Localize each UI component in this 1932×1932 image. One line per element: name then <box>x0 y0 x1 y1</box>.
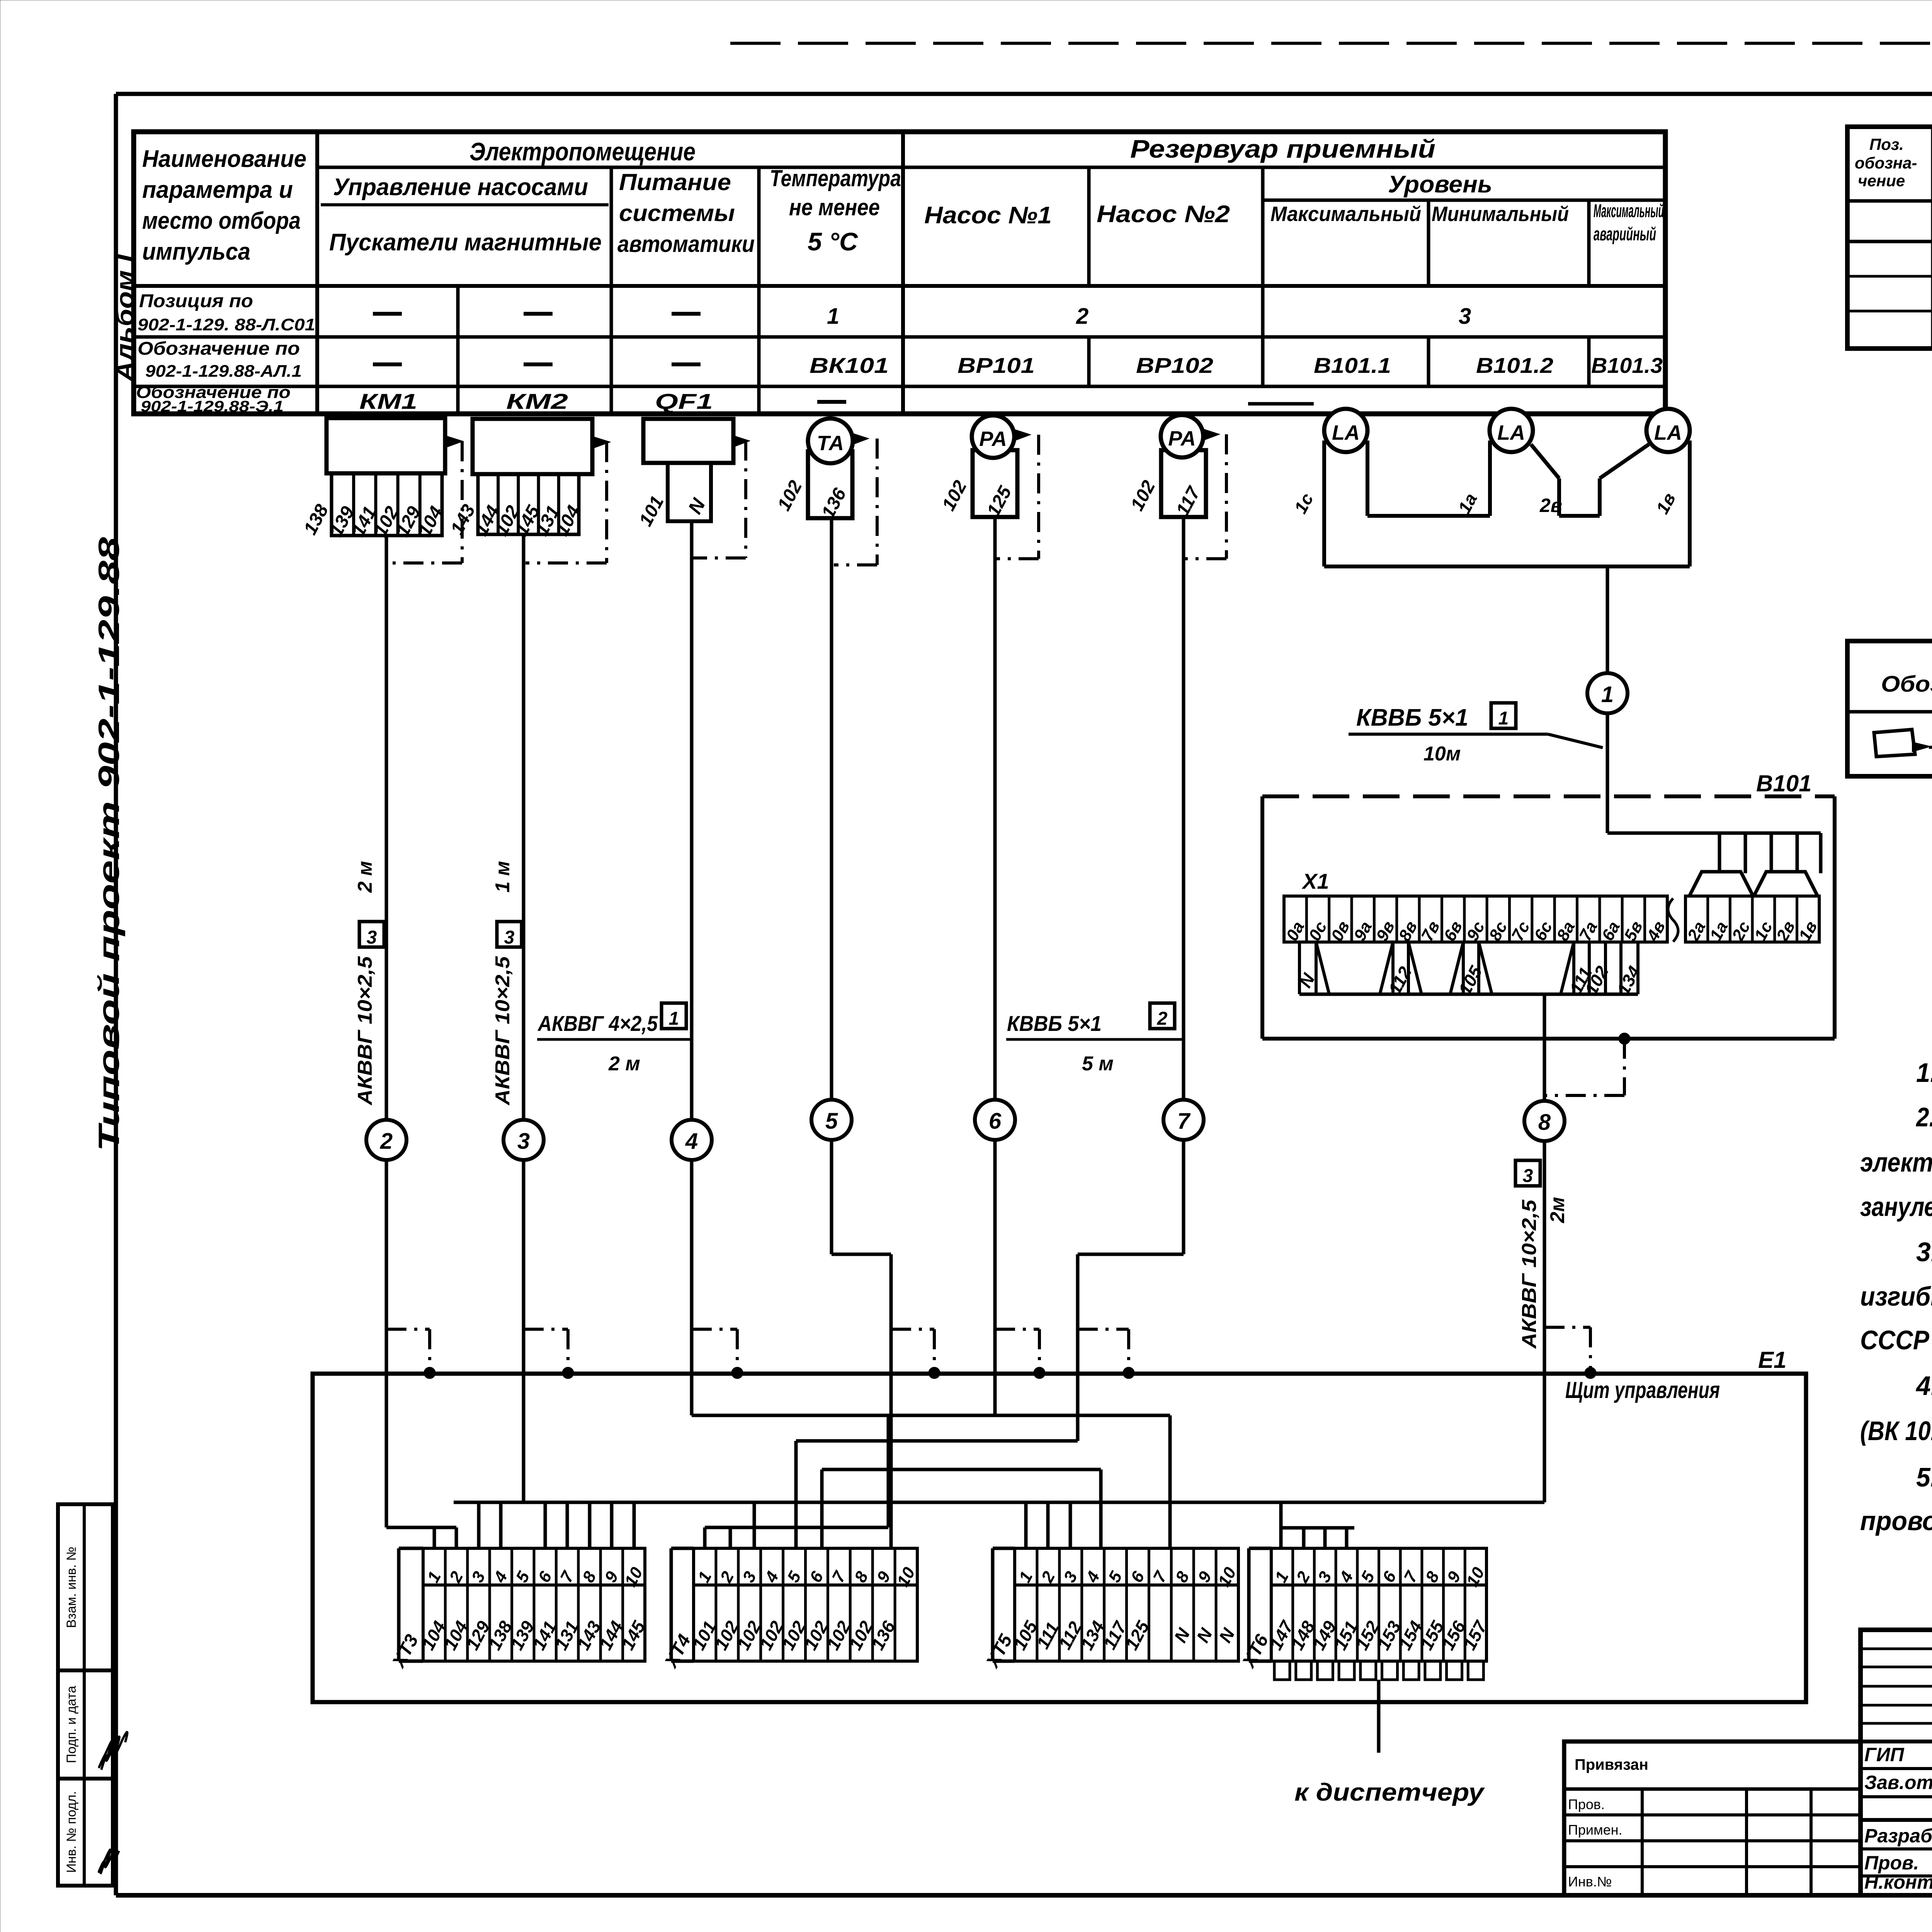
sheet top edge (dashed) <box>730 42 1932 45</box>
svg-text:В101: В101 <box>1756 770 1811 796</box>
svg-text:чение: чение <box>1858 172 1905 190</box>
svg-text:автоматики: автоматики <box>617 231 755 257</box>
svg-text:Насос №1: Насос №1 <box>924 202 1052 229</box>
svg-text:Максимальный: Максимальный <box>1594 201 1664 221</box>
reservoir device box B101 <box>1262 794 1835 798</box>
svg-text:КВВБ 5×1: КВВБ 5×1 <box>1356 704 1468 731</box>
svg-text:Температура: Температура <box>770 165 901 191</box>
terminal strip X1 <box>1284 896 1667 942</box>
level sensor LA3 <box>1646 409 1690 452</box>
wire from QF1 to E1 (cable 4) <box>690 521 694 1373</box>
cable list table <box>1847 127 1932 349</box>
svg-text:РА: РА <box>1168 427 1196 450</box>
svg-text:Максимальный: Максимальный <box>1270 202 1421 226</box>
magnetic starter KM1 <box>327 418 445 473</box>
svg-text:2м: 2м <box>1546 1197 1569 1223</box>
svg-text:Наименование: Наименование <box>142 146 306 172</box>
svg-text:В101.2: В101.2 <box>1476 353 1553 378</box>
signature scribble <box>99 1732 128 1770</box>
temperature sensor TA <box>808 451 852 518</box>
ground core hook at B101 bottom <box>1619 1033 1630 1044</box>
svg-text:В101.1: В101.1 <box>1314 353 1391 378</box>
svg-text:8: 8 <box>1538 1110 1551 1135</box>
svg-text:В101.3: В101.3 <box>1591 353 1663 378</box>
svg-text:Разраб.: Разраб. <box>1864 1825 1932 1847</box>
hood over cells 2a-1a <box>1689 872 1753 896</box>
svg-text:ВК101: ВК101 <box>810 353 889 378</box>
svg-text:1. Позиционные обозначения д: 1. Позиционные обозначения даны по 902-1… <box>1916 1058 1932 1088</box>
svg-text:3: 3 <box>1523 1166 1533 1186</box>
PA1 ground core dash-dot <box>1037 435 1040 559</box>
wire to dispatcher <box>1377 1680 1381 1753</box>
svg-text:2: 2 <box>1157 1009 1168 1029</box>
auxiliary bus inside E1 <box>822 1468 1101 1471</box>
svg-text:Пускатели магнитные: Пускатели магнитные <box>329 229 602 256</box>
side table (Взам.инв / Подп.и дата / Инв.подл) <box>58 1504 113 1886</box>
parameter table vertical rules <box>315 132 319 414</box>
svg-text:проводить по сх. 902-1-12: проводить по сх. 902-1-129.88 - А л.3 <box>1860 1506 1932 1536</box>
wire from KM1 to E1 (cable 2) <box>385 536 388 1373</box>
wire 8 branch inside E1 to XT6 <box>1543 1373 1546 1502</box>
svg-text:3: 3 <box>1459 304 1471 329</box>
svg-text:параметра и: параметра и <box>142 177 293 203</box>
svg-text:Инв. № подл.: Инв. № подл. <box>64 1791 79 1873</box>
node circle 6 <box>975 1100 1015 1140</box>
svg-text:2 м: 2 м <box>608 1053 640 1075</box>
wire from TA (cable 5) <box>830 518 833 1254</box>
X1 break squiggle <box>1668 898 1678 942</box>
svg-text:(ВК 101.1 ... ВК 101.3) и: (ВК 101.1 ... ВК 101.3) и тщательно заиз… <box>1860 1416 1932 1446</box>
wire from X1 group to circle 8 (cable 8) <box>1543 994 1546 1373</box>
svg-text:Подп. и дата: Подп. и дата <box>64 1686 79 1763</box>
wire 2 branch inside E1 to XT3 <box>385 1373 388 1527</box>
svg-text:2: 2 <box>380 1129 393 1154</box>
svg-text:902-1-129.88-АЛ.1: 902-1-129.88-АЛ.1 <box>145 362 302 381</box>
svg-text:Зав.отд.: Зав.отд. <box>1864 1772 1932 1793</box>
circuit breaker QF1 <box>643 419 733 463</box>
wire 4 branch inside E1 <box>690 1373 694 1415</box>
svg-text:1: 1 <box>1498 708 1509 729</box>
svg-text:системы: системы <box>619 200 735 226</box>
svg-text:3: 3 <box>367 927 377 948</box>
svg-text:Электропомещение: Электропомещение <box>469 137 696 166</box>
cable 8 ground hook <box>1544 1326 1590 1329</box>
svg-text:Взам. инв. №: Взам. инв. № <box>64 1547 79 1628</box>
svg-text:импульса: импульса <box>142 238 250 265</box>
svg-text:Питание: Питание <box>619 169 731 195</box>
svg-text:Обозначение по: Обозначение по <box>138 338 300 359</box>
svg-text:LA: LA <box>1332 421 1360 444</box>
svg-text:2. Все металлические, нормаль: 2. Все металлические, нормально нетокове… <box>1915 1102 1932 1132</box>
wire from PA1 (cable 6) <box>993 517 997 1373</box>
svg-text:7: 7 <box>1177 1109 1191 1134</box>
wire from PA2 (cable 7) <box>1182 517 1185 1254</box>
ground hooks at E1 top <box>386 1328 430 1331</box>
svg-text:10м: 10м <box>1423 743 1461 765</box>
legend table <box>1847 641 1932 776</box>
terminal strip X1 right group <box>1685 896 1819 942</box>
stamp: main title block <box>1861 1630 1932 1895</box>
wire 7 branch inside E1 <box>1076 1373 1080 1441</box>
svg-text:Минимальный: Минимальный <box>1432 202 1569 226</box>
inventory number scribble <box>99 1847 119 1874</box>
drawing frame <box>116 92 1932 96</box>
cable 8 designation АКВВГ 10х2,5 [3] 2м <box>1515 1160 1540 1186</box>
node circle 8 <box>1524 1101 1565 1141</box>
svg-text:3: 3 <box>504 927 515 948</box>
svg-text:Уровень: Уровень <box>1388 171 1492 198</box>
svg-text:LA: LA <box>1497 421 1525 444</box>
svg-text:Пров.: Пров. <box>1568 1796 1605 1812</box>
svg-text:5 °С: 5 °С <box>808 227 858 256</box>
wire from LA group to B101 (cable 1) <box>1606 566 1609 796</box>
node circle 4 <box>672 1120 712 1160</box>
row1 dashes and values <box>373 312 402 316</box>
svg-text:СССР от 17.12.79 г №89-Д.: СССР от 17.12.79 г №89-Д. <box>1860 1325 1932 1355</box>
svg-text:5. Монтаж магнитных пускат: 5. Монтаж магнитных пускателей КМ1, КМ2 <box>1916 1462 1932 1492</box>
pressure gauge PA (pump2) <box>1161 450 1206 517</box>
row2 dashes and values <box>373 362 402 366</box>
pressure gauge PA (pump1) <box>973 450 1017 517</box>
svg-text:6: 6 <box>989 1109 1002 1134</box>
svg-text:ГИП: ГИП <box>1864 1744 1905 1765</box>
svg-text:электрооборудования занулить: электрооборудования занулить согласно ПУ… <box>1860 1147 1932 1177</box>
PA2 ground core dash-dot <box>1225 434 1228 559</box>
svg-text:зануления использовать нулев: зануления использовать нулевую жилу пров… <box>1860 1192 1932 1222</box>
svg-text:место отбора: место отбора <box>142 207 301 234</box>
svg-text:ТА: ТА <box>817 432 844 455</box>
svg-text:КМ1: КМ1 <box>359 389 417 413</box>
svg-text:изгибы , повороты и отходы: изгибы , повороты и отходы согласно пись… <box>1860 1281 1932 1311</box>
hood over cells 2c-1c <box>1754 872 1818 896</box>
level sensor LA2 <box>1490 409 1533 452</box>
svg-text:1: 1 <box>827 304 839 329</box>
svg-text:ВР101: ВР101 <box>957 353 1035 378</box>
svg-text:902-1-129.88-Э.1: 902-1-129.88-Э.1 <box>141 398 284 415</box>
svg-text:4. Кабель №1 развести на: 4. Кабель №1 развести на три датчика ЭРС… <box>1915 1371 1932 1401</box>
svg-text:Поз.: Поз. <box>1869 135 1904 153</box>
svg-text:к диспетчеру: к диспетчеру <box>1294 1778 1485 1806</box>
node circle 1 <box>1587 673 1628 713</box>
svg-text:АКВВГ 10×2,5: АКВВГ 10×2,5 <box>354 956 376 1106</box>
KM2 ground core dash-dot <box>605 442 608 563</box>
svg-text:QF1: QF1 <box>655 389 713 413</box>
node circle 3 <box>503 1120 544 1160</box>
LA group connecting lines <box>1367 514 1490 518</box>
svg-text:Насос №2: Насос №2 <box>1097 201 1230 228</box>
svg-text:Управление насосами: Управление насосами <box>333 174 588 201</box>
svg-text:5 м: 5 м <box>1082 1053 1114 1075</box>
node circle 2 <box>366 1120 406 1160</box>
grouping bridges <box>1316 942 1329 994</box>
svg-text:LA: LA <box>1654 421 1682 444</box>
svg-text:АКВВГ 10×2,5: АКВВГ 10×2,5 <box>1518 1199 1541 1349</box>
svg-text:2 м: 2 м <box>354 861 376 893</box>
svg-text:2: 2 <box>1076 304 1088 329</box>
svg-text:ВР102: ВР102 <box>1136 353 1213 378</box>
grouping bottom bus <box>1299 993 1638 996</box>
svg-text:Е1: Е1 <box>1758 1347 1786 1373</box>
parameter table horizontal rules <box>317 166 1665 169</box>
TA ground core dash-dot <box>876 439 879 565</box>
parameter table frame <box>134 132 1665 414</box>
svg-text:3. Длины кабелей даны с: 3. Длины кабелей даны с учетом 6 % надба… <box>1916 1237 1932 1267</box>
svg-text:КВВБ 5×1: КВВБ 5×1 <box>1007 1011 1102 1036</box>
svg-text:обозна-: обозна- <box>1855 154 1917 172</box>
X1 core grouping boxes N 112 105 111 102 134 <box>1298 942 1301 994</box>
svg-text:902-1-129. 88-Л.С01: 902-1-129. 88-Л.С01 <box>138 315 315 334</box>
level sensor LA1 <box>1324 409 1367 452</box>
svg-text:2в: 2в <box>1539 495 1562 516</box>
control panel box E1 <box>313 1374 1806 1702</box>
svg-text:1: 1 <box>1601 682 1614 707</box>
wire from KM2 to E1 (cable 3) <box>522 534 526 1373</box>
svg-text:не менее: не менее <box>789 194 880 220</box>
svg-text:Инв.№: Инв.№ <box>1568 1874 1612 1889</box>
wire 5 branch inside E1 <box>889 1373 893 1548</box>
svg-text:АКВВГ 10×2,5: АКВВГ 10×2,5 <box>492 956 514 1106</box>
svg-text:аварийный: аварийный <box>1594 224 1656 245</box>
KM1 ground core dash-dot <box>461 441 464 563</box>
svg-text:Привязан: Привязан <box>1575 1756 1648 1773</box>
svg-text:КМ2: КМ2 <box>506 389 568 413</box>
wire inside B101 from circle 1 <box>1606 796 1609 833</box>
svg-text:Позиция по: Позиция по <box>139 291 253 311</box>
legend symbol: grounded core of cable <box>1874 730 1915 757</box>
svg-text:Щит управления: Щит управления <box>1565 1377 1720 1403</box>
drops to sensor terminals <box>1718 833 1721 873</box>
svg-text:Типовой проект 902-1-129.88: Типовой проект 902-1-129.88 <box>93 537 126 1151</box>
node circle 7 <box>1163 1100 1204 1140</box>
svg-text:Примен.: Примен. <box>1568 1822 1622 1838</box>
svg-text:5: 5 <box>825 1109 838 1134</box>
node circle 5 <box>811 1100 852 1140</box>
svg-text:Н.контр.: Н.контр. <box>1864 1871 1932 1893</box>
svg-text:АКВВГ 4×2,5: АКВВГ 4×2,5 <box>537 1011 658 1036</box>
svg-text:Пров.: Пров. <box>1864 1852 1919 1874</box>
wire 3 branch inside E1 <box>522 1373 526 1502</box>
svg-text:3: 3 <box>517 1129 530 1154</box>
XT6 bottom stubs <box>1274 1661 1290 1680</box>
QF1 ground core dash-dot <box>744 440 747 558</box>
svg-text:1: 1 <box>669 1009 679 1029</box>
svg-text:1 м: 1 м <box>492 861 514 893</box>
svg-text:Обозначение: Обозначение <box>1881 672 1932 697</box>
svg-text:РА: РА <box>979 427 1007 451</box>
svg-text:X1: X1 <box>1301 869 1329 893</box>
main horizontal bus inside E1 <box>454 1501 1544 1504</box>
stamp: Привязан table <box>1564 1742 1861 1895</box>
magnetic starter KM2 <box>473 419 592 474</box>
wire 6 branch inside E1 <box>993 1373 997 1415</box>
svg-text:4: 4 <box>685 1129 698 1154</box>
svg-text:Резервуар приемный: Резервуар приемный <box>1130 134 1435 163</box>
